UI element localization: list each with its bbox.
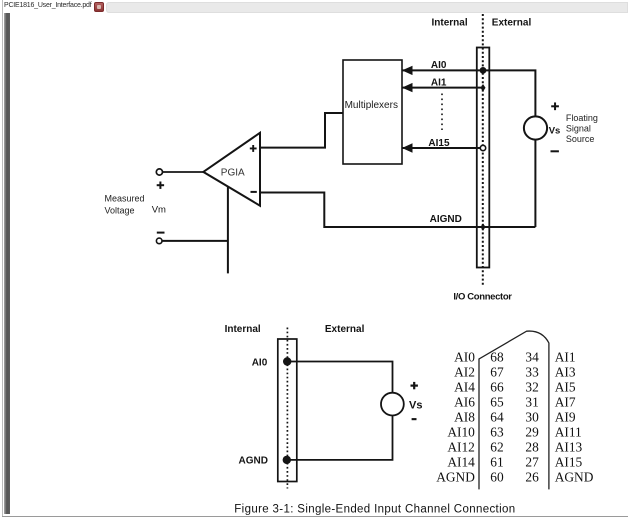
plus sign Vs (bottom)	[411, 382, 418, 389]
svg-text:Signal: Signal	[566, 123, 591, 133]
left scrollbar bar	[4, 13, 10, 514]
arrowhead AI1 into multiplexer	[402, 83, 413, 92]
op-amp PGIA	[203, 133, 260, 206]
I/O connector strip (top)	[477, 48, 490, 268]
empty tab strip	[106, 2, 628, 13]
svg-text:AI15: AI15	[555, 454, 583, 469]
svg-text:AI9: AI9	[555, 409, 576, 424]
svg-text:Floating: Floating	[566, 113, 598, 123]
pin row 63/29 AI10 AI11	[447, 424, 581, 439]
page bottom border	[2, 516, 628, 517]
wire AI1	[402, 87, 483, 89]
wire multiplexer output to PGIA + input	[261, 113, 344, 148]
svg-text:External: External	[492, 17, 532, 28]
wire PGIA - input to AIGND rail	[261, 193, 536, 228]
voltage source Vs (top)	[524, 116, 547, 139]
svg-text:AI1: AI1	[431, 77, 447, 88]
svg-text:AI14: AI14	[447, 454, 475, 469]
svg-text:AI13: AI13	[555, 439, 583, 454]
svg-text:Vs: Vs	[409, 400, 422, 412]
label AI15	[428, 138, 450, 149]
svg-text:Voltage: Voltage	[105, 205, 135, 215]
svg-text:Measured: Measured	[105, 193, 145, 203]
multiplexer U1	[343, 60, 402, 164]
label AI1	[431, 77, 447, 88]
svg-text:AGND: AGND	[555, 469, 594, 484]
svg-text:PGIA: PGIA	[221, 167, 245, 178]
svg-text:AI10: AI10	[447, 424, 475, 439]
svg-text:Internal: Internal	[225, 324, 261, 335]
plus sign Vm	[157, 182, 164, 189]
node label External (top)	[492, 17, 532, 28]
wire Vs negative lead to AIGND	[534, 140, 536, 227]
junction open circle AI15	[480, 145, 485, 150]
wire PGIA reference vertical stub	[227, 187, 229, 274]
junction dot AGND (bottom)	[283, 456, 291, 464]
terminal circle Vm+	[156, 169, 162, 175]
svg-text:AI8: AI8	[454, 409, 475, 424]
svg-text:68: 68	[490, 349, 504, 364]
wire Vs to AGND (bottom)	[287, 416, 393, 460]
page left border	[2, 0, 3, 517]
pin row 66/32 AI4 AI5	[454, 379, 576, 394]
label Measured Voltage	[105, 193, 145, 215]
wire Vm- terminal to PGIA reference stub	[162, 240, 228, 242]
svg-text:External: External	[325, 324, 365, 335]
pin row 61/27 AI14 AI15	[447, 454, 582, 469]
I/O connector strip (bottom)	[278, 339, 297, 482]
svg-text:29: 29	[525, 424, 539, 439]
svg-text:31: 31	[525, 394, 538, 409]
svg-text:AGND: AGND	[239, 455, 268, 466]
svg-text:61: 61	[490, 454, 503, 469]
svg-text:AGND: AGND	[436, 469, 475, 484]
68-pin connector outline	[479, 331, 549, 489]
svg-text:65: 65	[490, 394, 504, 409]
label AGND (bottom)	[239, 455, 268, 466]
svg-text:32: 32	[525, 379, 538, 394]
junction dot AI0	[480, 67, 487, 74]
arrowhead AI15 into multiplexer	[402, 143, 413, 152]
wire AI0	[402, 70, 535, 116]
label AIGND	[430, 214, 462, 225]
svg-text:AI3: AI3	[555, 364, 576, 379]
svg-text:27: 27	[525, 454, 539, 469]
pin row 64/30 AI8 AI9	[454, 409, 576, 424]
svg-text:67: 67	[490, 364, 504, 379]
svg-text:62: 62	[490, 439, 503, 454]
svg-text:Source: Source	[566, 134, 595, 144]
label AI0 (bottom)	[252, 357, 268, 368]
label Vm	[152, 204, 166, 215]
svg-text:28: 28	[525, 439, 539, 454]
svg-text:30: 30	[525, 409, 539, 424]
svg-text:Vs: Vs	[549, 126, 561, 137]
svg-text:Multiplexers: Multiplexers	[345, 100, 398, 111]
pin row 68/34 AI0 AI1	[454, 349, 575, 364]
internal/external dotted divider (top)	[482, 14, 484, 285]
wire PGIA output to Vm+ terminal	[163, 171, 204, 173]
svg-text:AI5: AI5	[555, 379, 576, 394]
label Floating Signal Source	[566, 113, 598, 144]
svg-text:63: 63	[490, 424, 504, 439]
node label External (bottom)	[325, 324, 365, 335]
minus sign at PGIA - input	[251, 191, 257, 193]
svg-text:AI15: AI15	[428, 138, 450, 149]
svg-text:AIGND: AIGND	[430, 214, 462, 225]
node label Internal (top)	[432, 17, 468, 28]
svg-text:AI1: AI1	[555, 349, 576, 364]
svg-text:60: 60	[490, 469, 504, 484]
plus sign at PGIA + input	[250, 145, 257, 152]
svg-text:Figure 3-1: Single-Ended Input: Figure 3-1: Single-Ended Input Channel C…	[234, 503, 515, 515]
pdf tab icon	[94, 2, 105, 12]
svg-text:AI12: AI12	[447, 439, 475, 454]
label Vs (bottom)	[409, 400, 422, 412]
minus sign Vm	[157, 232, 165, 234]
dotted divider (bottom)	[286, 328, 288, 489]
wire AI15	[402, 147, 483, 149]
svg-text:AI0: AI0	[431, 60, 447, 71]
svg-text:AI4: AI4	[454, 379, 475, 394]
label Vs (top)	[549, 126, 561, 137]
pin table	[436, 349, 593, 484]
svg-text:AI0: AI0	[252, 357, 268, 368]
svg-text:Vm: Vm	[152, 204, 166, 215]
minus sign Vs (bottom)	[412, 418, 417, 420]
arrowhead AI0 into multiplexer	[402, 66, 413, 75]
svg-text:26: 26	[525, 469, 539, 484]
svg-text:Internal: Internal	[432, 17, 468, 28]
svg-text:AI6: AI6	[454, 394, 475, 409]
terminal circle Vm-	[156, 238, 162, 244]
junction diamond AI1	[481, 84, 486, 92]
node label Internal (bottom)	[225, 324, 261, 335]
label AI0	[431, 60, 447, 71]
pin row 62/28 AI12 AI13	[447, 439, 582, 454]
minus sign Vs (top)	[551, 150, 559, 152]
svg-text:64: 64	[490, 409, 504, 424]
svg-text:AI2: AI2	[454, 364, 475, 379]
junction dot AI0 (bottom)	[283, 357, 291, 365]
figure caption	[234, 503, 515, 515]
junction diamond AIGND	[481, 223, 486, 231]
ellipsis dotted line between AI1 and AI15	[441, 94, 443, 131]
svg-text:I/O Connector: I/O Connector	[453, 292, 512, 303]
svg-text:AI0: AI0	[454, 349, 475, 364]
pin row 60/26 AGND AGND	[436, 469, 593, 484]
pin row 67/33 AI2 AI3	[454, 364, 576, 379]
plus sign Vs (top)	[551, 102, 559, 110]
browser tab bar	[0, 0, 628, 13]
wire AI0 to Vs (bottom)	[287, 362, 392, 393]
svg-text:33: 33	[525, 364, 539, 379]
svg-text:AI11: AI11	[555, 424, 582, 439]
label I/O Connector	[453, 292, 512, 303]
svg-text:34: 34	[525, 349, 539, 364]
svg-text:AI7: AI7	[555, 394, 576, 409]
pin row 65/31 AI6 AI7	[454, 394, 576, 409]
tab title text	[4, 2, 91, 9]
voltage source Vs (bottom)	[381, 393, 404, 416]
svg-text:66: 66	[490, 379, 504, 394]
